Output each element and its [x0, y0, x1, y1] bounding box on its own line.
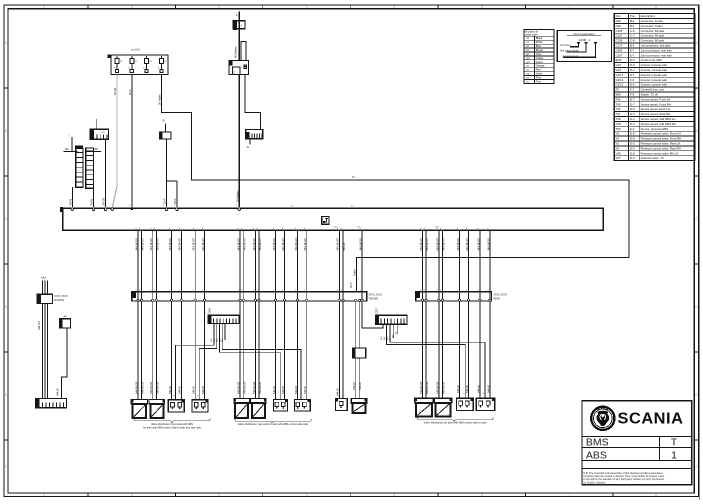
svg-text:D-7: D-7 [630, 102, 635, 106]
svg-text:544-16: 544-16 [457, 385, 460, 393]
svg-text:544-16: 544-16 [477, 385, 480, 393]
svg-text:E-7: E-7 [630, 48, 635, 52]
svg-text:1: 1 [129, 205, 131, 207]
stub wires above connector C96 [42, 281, 44, 295]
svg-text:5: 5 [341, 290, 342, 292]
svg-text:7: 7 [569, 5, 571, 9]
ECU output wire pin labels [135, 228, 489, 230]
fuse 1 [116, 56, 118, 59]
svg-text:5: 5 [238, 290, 239, 292]
fuse 4 [160, 56, 162, 59]
svg-text:D-5: D-5 [630, 63, 635, 67]
svg-text:5: 5 [154, 290, 155, 292]
svg-text:C499: C499 [210, 307, 212, 313]
svg-text:B: B [695, 129, 697, 133]
svg-text:T49: T49 [616, 122, 621, 126]
modulator valve V5 rear LH [234, 398, 250, 418]
svg-text:15A: 15A [65, 148, 70, 151]
svg-text:30-R: 30-R [350, 282, 353, 288]
svg-text:xx-XXx: xx-XXx [131, 48, 140, 52]
connector C509 [246, 130, 263, 149]
svg-text:Joint connector, rear axle: Joint connector, rear axle [641, 53, 673, 57]
svg-text:544-16-GR: 544-16-GR [273, 238, 276, 251]
svg-text:C108: C108 [616, 39, 623, 43]
valve wire at x=306.7 [306, 230, 308, 399]
svg-text:T48: T48 [616, 117, 621, 121]
svg-text:544-16-GR: 544-16-GR [150, 238, 153, 251]
svg-text:V4: V4 [616, 137, 620, 141]
solenoid valve V57 [351, 398, 367, 413]
svg-text:C: C [5, 217, 8, 221]
svg-text:Connector, 66-pole: Connector, 66-pole [641, 34, 665, 38]
svg-text:Ground, torpedo wall: Ground, torpedo wall [641, 73, 667, 77]
svg-text:5: 5 [253, 290, 254, 292]
wire ladder-left to ECU [71, 187, 73, 207]
svg-text:C105: C105 [616, 29, 623, 33]
valve connector V48 [457, 398, 474, 411]
svg-text:544-16-GR: 544-16-GR [142, 381, 145, 394]
svg-text:F-7: F-7 [630, 88, 635, 92]
svg-text:B-5: B-5 [630, 44, 635, 48]
svg-text:544-16-GR: 544-16-GR [238, 238, 241, 251]
svg-text:Valve distribution rear axle f: Valve distribution rear axle for axle wi… [238, 422, 309, 426]
svg-text:A: A [695, 41, 698, 45]
svg-text:D-8: D-8 [630, 132, 635, 136]
svg-text:25-R: 25-R [164, 198, 167, 204]
svg-text:REAR: REAR [494, 298, 501, 301]
svg-text:30: 30 [352, 177, 355, 179]
svg-text:5: 5 [273, 290, 274, 292]
svg-text:Black: Black [536, 36, 543, 40]
svg-text:C105: C105 [100, 132, 106, 134]
svg-text:a: a [68, 135, 70, 137]
svg-text:544-16-GR: 544-16-GR [179, 238, 182, 251]
svg-text:A1: A1 [291, 205, 294, 208]
svg-text:5: 5 [337, 290, 338, 292]
svg-text:for axle with ABS-control side: for axle with ABS-control side to side a… [143, 425, 202, 429]
svg-text:C92: C92 [616, 24, 622, 28]
svg-text:Pressure control valve, Front: Pressure control valve, Front RH [641, 137, 682, 141]
connector C96 [37, 294, 68, 303]
svg-text:F: F [5, 465, 7, 469]
svg-text:544-16-GR: 544-16-GR [426, 238, 429, 251]
svg-text:C-7: C-7 [630, 34, 635, 38]
svg-text:544-16-GR: 544-16-GR [337, 238, 340, 251]
bus bar 1 wire crossing circles [137, 299, 139, 301]
red revision marks right margin [699, 449, 701, 500]
svg-text:15: 15 [120, 61, 123, 63]
svg-text:544-16-GR: 544-16-GR [420, 238, 423, 251]
svg-text:5: 5 [282, 290, 283, 292]
svg-text:544-16-GR: 544-16-GR [282, 238, 285, 251]
wire fuse1 grey to ECU pin [112, 75, 117, 208]
svg-text:544-16-GR: 544-16-GR [304, 238, 307, 251]
wire TC valve to connector C507 [362, 230, 383, 328]
unit explanation box [557, 30, 611, 61]
valve wire at x=479.9 [479, 230, 481, 398]
svg-text:EGP: EGP [616, 58, 622, 62]
svg-text:2: 2 [131, 5, 133, 9]
svg-text:Solenoid valve, TC: Solenoid valve, TC [641, 156, 664, 160]
svg-text:544-16: 544-16 [193, 386, 196, 394]
wire C92 to G10 [61, 328, 67, 399]
svg-text:TRAILER: TRAILER [369, 298, 379, 301]
wires C170 to ECU [166, 139, 168, 207]
valve connector V49 [476, 398, 495, 411]
svg-text:C499: C499 [616, 48, 623, 52]
svg-text:2: 2 [131, 493, 133, 497]
bus bar 1 wire top tick labels [136, 290, 489, 292]
svg-text:D-6: D-6 [630, 83, 635, 87]
svg-text:Pos: Pos [630, 14, 635, 18]
bus bar 2 wire crossing circles [421, 299, 423, 301]
svg-text:4: 4 [306, 5, 308, 9]
svg-text:5: 5 [257, 290, 258, 292]
svg-text:D-5: D-5 [630, 107, 635, 111]
svg-text:544-16: 544-16 [304, 386, 307, 394]
wire colour code table [524, 30, 554, 84]
modulator valve V6 rear RH [251, 398, 267, 418]
svg-text:Orange: Orange [536, 64, 545, 68]
copyright note [583, 471, 665, 485]
svg-text:544: 544 [211, 338, 213, 342]
svg-text:D-5: D-5 [630, 142, 635, 146]
svg-text:5: 5 [394, 493, 396, 497]
svg-text:Sensor speed, Front LH: Sensor speed, Front LH [641, 97, 671, 101]
svg-text:544-16-GR: 544-16-GR [487, 238, 490, 251]
svg-text:D-7: D-7 [630, 97, 635, 101]
svg-text:bl: bl [527, 44, 529, 48]
svg-text:544-16: 544-16 [343, 242, 346, 250]
svg-text:C-8: C-8 [630, 39, 635, 43]
svg-text:6: 6 [481, 493, 483, 497]
svg-text:E-4: E-4 [630, 127, 635, 131]
ECU internal symbol box [322, 216, 329, 224]
wire pair diode box to X-box [355, 358, 357, 399]
svg-text:or: or [527, 64, 529, 68]
valve wire at x=204.6 [204, 230, 206, 399]
joint connector C499 [208, 307, 239, 323]
svg-text:544-16: 544-16 [169, 386, 172, 394]
svg-text:Ground, torpedo wall: Ground, torpedo wall [641, 78, 667, 82]
svg-text:T47: T47 [616, 112, 621, 116]
valve wire at x=468.5 [468, 230, 470, 398]
svg-text:30-Battery: 30-Battery [235, 46, 238, 58]
svg-text:T45: T45 [616, 102, 621, 106]
svg-text:A: A [5, 41, 8, 45]
svg-text:CHASSIS: CHASSIS [54, 299, 65, 302]
svg-text:rs: rs [527, 75, 530, 79]
svg-text:Connector, 9-pole: Connector, 9-pole [641, 19, 664, 23]
svg-text:C-6: C-6 [630, 29, 635, 33]
svg-text:5: 5 [136, 290, 137, 292]
bus bar 1 (front axle valves supply) [131, 292, 382, 301]
svg-text:E: E [5, 393, 7, 397]
valve wire at x=171.6 [171, 230, 173, 399]
svg-text:D-8: D-8 [630, 137, 635, 141]
svg-text:Ground, console wall: Ground, console wall [641, 83, 667, 87]
fan wires from C507 [387, 324, 466, 398]
svg-text:D: D [5, 305, 8, 309]
svg-text:8: 8 [655, 493, 657, 497]
svg-text:544: 544 [381, 336, 383, 340]
svg-text:5: 5 [139, 290, 140, 292]
svg-text:Sensor speed, Rear LH: Sensor speed, Rear LH [641, 107, 670, 111]
svg-text:(component-no): (component-no) [563, 55, 579, 58]
svg-text:1: 1 [174, 205, 176, 207]
fuse 3 [146, 56, 148, 59]
svg-text:BMS: BMS [586, 437, 609, 449]
svg-text:8: 8 [655, 5, 657, 9]
svg-text:544-16-GR: 544-16-GR [426, 381, 429, 394]
svg-text:E: E [695, 393, 697, 397]
svg-text:G25.4: G25.4 [616, 78, 624, 82]
wire pair bar1 to diode box [355, 301, 357, 348]
svg-text:D-4: D-4 [630, 68, 635, 72]
modulator valve V46 [414, 398, 433, 417]
valve connector V5 [168, 399, 184, 412]
svg-text:G29.2: G29.2 [616, 83, 624, 87]
svg-text:544-16-GR: 544-16-GR [150, 381, 153, 394]
svg-text:G15.2: G15.2 [616, 73, 624, 77]
svg-text:15: 15 [164, 61, 167, 63]
svg-text:544-16: 544-16 [359, 382, 362, 390]
svg-text:Ground, torpedo wall: Ground, torpedo wall [641, 63, 667, 67]
svg-text:544-16-GR: 544-16-GR [193, 238, 196, 251]
svg-text:C507: C507 [377, 307, 379, 313]
svg-text:Yellow: Yellow [536, 56, 544, 60]
svg-text:B-4: B-4 [630, 19, 635, 23]
svg-text:544-GR: 544-GR [38, 321, 41, 330]
sensor wire pair at x=240.1 [239, 230, 241, 398]
svg-text:544-16-GR: 544-16-GR [169, 238, 172, 251]
valve wire at x=297.5 [297, 230, 299, 399]
svg-text:XXXX_XXXX: XXXX_XXXX [369, 295, 383, 297]
svg-text:G15: G15 [616, 63, 622, 67]
sensor wire pair at x=422.4 [421, 230, 423, 398]
svg-text:1: 1 [236, 205, 238, 207]
svg-text:544-16-GR: 544-16-GR [259, 381, 262, 394]
sensor wire pair at x=255.4 [254, 230, 256, 398]
svg-text:544-16-GR: 544-16-GR [360, 238, 363, 251]
svg-text:Switch, TC off: Switch, TC off [641, 93, 659, 97]
sensor wire pair at x=138.0 [137, 230, 139, 399]
svg-text:5: 5 [295, 290, 296, 292]
svg-text:1: 1 [43, 5, 45, 9]
valve connector V7 [274, 399, 288, 411]
wire relay to ECU [238, 75, 240, 207]
modulator valve V47 [434, 398, 452, 417]
svg-text:gu: gu [527, 57, 530, 60]
svg-text:544-16-GR: 544-16-GR [253, 238, 256, 251]
connector strip pair G15 ladder [64, 135, 101, 189]
svg-text:15: 15 [149, 61, 152, 63]
wire fuse4 long route to valve bus [161, 75, 629, 293]
svg-text:544-16-GR: 544-16-GR [244, 381, 247, 394]
svg-text:A2: A2 [351, 205, 354, 208]
svg-text:544-16-GR: 544-16-GR [253, 381, 256, 394]
svg-text:Connector, 66-pole: Connector, 66-pole [641, 39, 665, 43]
svg-text:25-R: 25-R [129, 89, 132, 95]
svg-text:sv: sv [527, 37, 530, 40]
scania griffin logo [591, 407, 614, 430]
svg-text:1: 1 [671, 449, 677, 461]
svg-text:1: 1 [43, 493, 45, 497]
svg-text:30-Trailer: 30-Trailer [158, 94, 161, 105]
svg-text:5: 5 [394, 5, 396, 9]
svg-text:Pink: Pink [536, 75, 542, 79]
svg-text:P2: P2 [616, 88, 620, 92]
svg-text:Sensor speed, Add MRA LH: Sensor speed, Add MRA LH [641, 117, 676, 121]
svg-text:544-16-GR: 544-16-GR [295, 238, 298, 251]
svg-text:XXXX_XXXX: XXXX_XXXX [494, 295, 508, 297]
svg-text:15B: 15B [94, 148, 99, 151]
connector C170 [160, 121, 172, 140]
svg-text:G16: G16 [616, 68, 622, 72]
svg-text:V46: V46 [616, 151, 621, 155]
svg-text:D-5: D-5 [630, 58, 635, 62]
svg-text:gr: gr [527, 52, 529, 56]
svg-text:D-4: D-4 [630, 117, 635, 121]
fuse box P2 central electric unit [108, 48, 168, 75]
svg-text:Blue: Blue [536, 44, 542, 48]
wire main supply from border [238, 12, 240, 61]
svg-text:C: C [695, 217, 698, 221]
svg-text:V57: V57 [616, 156, 621, 160]
svg-text:5: 5 [169, 290, 170, 292]
svg-text:Connector, Trailer: Connector, Trailer [641, 24, 663, 28]
svg-text:16-GR: 16-GR [103, 197, 106, 205]
svg-text:544-16-GR: 544-16-GR [436, 238, 439, 251]
svg-text:544-16-GR: 544-16-GR [477, 238, 480, 251]
ECU E22 ABS control unit [60, 207, 603, 230]
svg-text:544-16-GR: 544-16-GR [457, 238, 460, 251]
svg-text:Pos: Pos [616, 14, 621, 18]
svg-text:544-16-GR: 544-16-GR [466, 238, 469, 251]
component position table [614, 14, 695, 161]
svg-text:544-16: 544-16 [273, 386, 276, 394]
svg-text:Ground, console wall: Ground, console wall [641, 68, 667, 72]
wire C105 to ECU [105, 139, 107, 206]
svg-text:5: 5 [304, 290, 305, 292]
svg-text:Pressure control valve, Rear R: Pressure control valve, Rear RH [641, 146, 681, 150]
svg-text:Brown: Brown [536, 48, 544, 52]
svg-text:1: 1 [163, 205, 165, 207]
svg-text:((: (( [234, 70, 236, 74]
sensor wire pair at x=152.7 [152, 230, 154, 399]
svg-text:Connector, 66-pole: Connector, 66-pole [641, 29, 665, 33]
svg-text:V3: V3 [616, 132, 620, 136]
svg-text:544-16-GR: 544-16-GR [156, 238, 159, 251]
svg-text:Central E-box, unit: Central E-box, unit [641, 88, 664, 92]
svg-text:B: B [5, 129, 7, 133]
svg-text:C507: C507 [616, 53, 623, 57]
svg-text:Control unit, ABS: Control unit, ABS [641, 58, 662, 62]
svg-text:gn: gn [527, 61, 530, 64]
svg-text:C96: C96 [616, 19, 622, 23]
svg-text:5: 5 [241, 290, 242, 292]
svg-text:C170: C170 [616, 44, 623, 48]
svg-text:544-16: 544-16 [487, 385, 490, 393]
svg-text:br: br [527, 48, 529, 52]
svg-text:Sensor speed, Rear RH: Sensor speed, Rear RH [641, 112, 671, 116]
svg-text:D-5: D-5 [630, 112, 635, 116]
svg-text:544-16: 544-16 [202, 386, 205, 394]
svg-text:54-W: 54-W [91, 198, 94, 205]
svg-text:a: a [236, 15, 238, 17]
valve connector V8 [294, 399, 310, 411]
svg-text:T44: T44 [616, 97, 621, 101]
wire ladder-right to ECU [93, 188, 95, 207]
svg-text:44/08 · 1: 44/08 · 1 [579, 38, 591, 42]
svg-text:7: 7 [569, 493, 571, 497]
svg-text:SCANIA: SCANIA [618, 410, 684, 427]
valve wire at x=284.5 [284, 230, 286, 399]
svg-text:E-7: E-7 [630, 73, 635, 77]
svg-text:4: 4 [306, 493, 308, 497]
svg-text:16-GR: 16-GR [114, 87, 117, 95]
svg-text:Trailer: Trailer [354, 269, 357, 276]
svg-text:544-16-GR: 544-16-GR [142, 238, 145, 251]
svg-text:Sensor speed, Front RH: Sensor speed, Front RH [641, 102, 671, 106]
diode box V57 [352, 348, 365, 358]
svg-text:T50: T50 [616, 127, 621, 131]
junction dot fuse2 [131, 208, 134, 211]
svg-text:544-16-GR: 544-16-GR [202, 238, 205, 251]
svg-text:ABS: ABS [586, 449, 607, 461]
wire fuse2 to ECU junction [131, 75, 133, 208]
svg-text:V6: V6 [616, 146, 620, 150]
svg-text:Unit name: Unit name [560, 44, 571, 47]
svg-text:5: 5 [202, 290, 203, 292]
svg-text:544-16: 544-16 [179, 386, 182, 394]
svg-text:31: 31 [247, 147, 250, 149]
svg-text:54-W: 54-W [69, 198, 72, 205]
svg-text:E-7: E-7 [630, 53, 635, 57]
svg-text:5: 5 [193, 290, 194, 292]
wire relay to C509 [245, 75, 261, 130]
svg-text:Valve distribution for axle wi: Valve distribution for axle with ABS-con… [424, 421, 487, 425]
svg-text:Thin: Thin [536, 79, 542, 83]
svg-text:3: 3 [218, 493, 220, 497]
svg-text:544-16: 544-16 [336, 388, 339, 396]
svg-text:Grey: Grey [536, 52, 542, 56]
svg-text:6: 6 [481, 5, 483, 9]
fuse 2 [131, 56, 133, 59]
modulator valve V3 [131, 399, 148, 418]
valve wire at x=489.9 [489, 230, 491, 398]
svg-text:544-16-GR: 544-16-GR [238, 381, 241, 394]
sensor wire pair at x=438.9 [438, 230, 440, 398]
svg-text:T: T [671, 437, 678, 449]
svg-text:25-Battery: 25-Battery [236, 190, 239, 202]
svg-text:544: 544 [384, 336, 386, 340]
svg-text:XXXX_XXXX: XXXX_XXXX [54, 296, 68, 298]
svg-text:Unit explanation: Unit explanation [573, 32, 595, 36]
connector C105 [90, 119, 108, 139]
joint connector C507 [376, 307, 407, 324]
svg-text:5: 5 [360, 290, 361, 292]
svg-text:Pressure control valve, Rear L: Pressure control valve, Rear LH [641, 142, 681, 146]
svg-text:544-16-GR: 544-16-GR [135, 238, 138, 251]
modulator valve V4 [149, 399, 165, 418]
svg-text:(c) Scania, Sweden: (c) Scania, Sweden [583, 480, 606, 484]
svg-text:Sensor, pressure EBS: Sensor, pressure EBS [641, 127, 669, 131]
ECU top pin circles [71, 208, 74, 211]
svg-text:F-6: F-6 [630, 78, 635, 82]
svg-text:544-16: 544-16 [466, 385, 469, 393]
svg-text:AAA: AAA [41, 277, 46, 280]
